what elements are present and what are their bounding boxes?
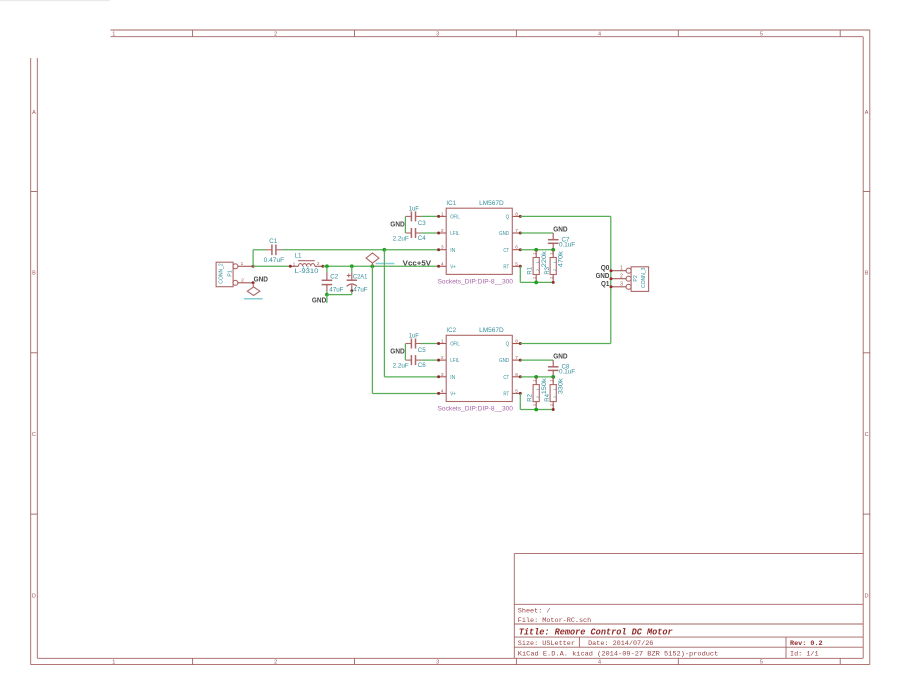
node at P2 pin 2 <box>610 277 613 280</box>
svg-text:47uF: 47uF <box>353 287 367 294</box>
capacitor C3 <box>406 205 427 227</box>
wire joining C3 and C4 left plates <box>404 216 406 233</box>
svg-text:Q: Q <box>506 342 510 348</box>
svg-text:CT: CT <box>503 248 509 254</box>
pin 7 of IC1 <box>512 232 519 234</box>
node at P1 pin 1 <box>252 265 255 268</box>
junction at left resistor bottom <box>534 281 538 285</box>
svg-text:8: 8 <box>515 339 518 345</box>
ground power symbol at P1 pin 2 <box>244 283 263 299</box>
svg-text:7: 7 <box>515 228 518 234</box>
svg-text:5: 5 <box>515 388 518 394</box>
svg-text:C3: C3 <box>418 220 426 227</box>
svg-text:C2: C2 <box>330 274 338 281</box>
svg-text:IC2: IC2 <box>446 327 456 334</box>
svg-text:1: 1 <box>112 32 115 38</box>
junction at C2 bottom <box>325 293 329 297</box>
svg-text:Sockets_DIP:DIP-8__300: Sockets_DIP:DIP-8__300 <box>438 407 514 413</box>
svg-text:R3: R3 <box>545 266 551 274</box>
svg-text:CONN_3: CONN_3 <box>641 267 647 288</box>
power flag PWR_FLAG on Vcc net <box>366 253 394 266</box>
wire C5 to IC pin 1 <box>421 343 438 345</box>
svg-text:Id: 1/1: Id: 1/1 <box>790 650 819 658</box>
node at L1 pin 2 <box>321 265 324 268</box>
svg-text:R4: R4 <box>545 393 551 401</box>
wire IC RT pin down to resistor bottoms <box>519 393 521 409</box>
svg-text:1: 1 <box>536 388 540 390</box>
pin node of IC2 <box>437 359 440 362</box>
svg-text:Date: 2014/07/26: Date: 2014/07/26 <box>588 640 653 648</box>
svg-text:4: 4 <box>598 659 601 665</box>
wire from P1 pin 1 to L1 <box>253 265 290 267</box>
pin 7 of IC2 <box>512 359 519 361</box>
svg-text:V+: V+ <box>450 392 456 398</box>
svg-text:C: C <box>32 432 36 438</box>
node at P2 pin 1 <box>610 269 613 272</box>
pin node of IC2 <box>437 342 440 345</box>
svg-text:R2: R2 <box>528 393 534 401</box>
svg-text:3: 3 <box>441 372 444 378</box>
svg-text:3: 3 <box>436 32 439 38</box>
node at right resistor bottom <box>552 408 555 411</box>
svg-text:L1: L1 <box>295 253 302 260</box>
pin 2 of IC1 <box>439 232 446 234</box>
svg-text:C: C <box>865 432 869 438</box>
wire IC1 Q to corner <box>520 215 611 217</box>
connector P1 CONN_2 <box>216 261 253 287</box>
svg-text:4: 4 <box>441 388 444 394</box>
pin 2 of P2 <box>626 276 631 281</box>
svg-text:2: 2 <box>553 269 557 271</box>
svg-text:GND: GND <box>312 298 326 305</box>
svg-text:GND: GND <box>254 277 268 284</box>
svg-text:C4: C4 <box>418 235 426 242</box>
wire from C2 bottom to C2A1 bottom <box>327 294 352 296</box>
resistor R1 220k <box>528 250 548 283</box>
svg-text:GND: GND <box>390 349 404 356</box>
wire IC RT pin down to resistor bottoms <box>519 266 521 282</box>
junction node on IN wire <box>383 248 387 252</box>
pin 6 of IC2 <box>512 376 519 378</box>
svg-text:2: 2 <box>553 396 557 398</box>
pin 4 of IC1 <box>439 265 446 267</box>
pin node of IC2 <box>437 392 440 395</box>
capacitor C5 <box>406 332 427 354</box>
pin node of IC1 <box>437 215 440 218</box>
GND stub wire below C2 <box>326 295 328 303</box>
svg-text:2: 2 <box>531 277 536 279</box>
svg-text:Sockets_DIP:DIP-8__300: Sockets_DIP:DIP-8__300 <box>438 279 514 285</box>
svg-text:1: 1 <box>553 388 557 390</box>
svg-text:2: 2 <box>274 32 277 38</box>
svg-text:2: 2 <box>441 228 444 234</box>
pin node of IC1 <box>437 265 440 268</box>
pin node of IC1 <box>437 248 440 251</box>
junction at left resistor bottom <box>534 408 538 412</box>
pin 5 of IC2 <box>512 392 519 394</box>
resistor R4 330k <box>545 377 565 410</box>
pin 3 of P2 <box>626 284 631 289</box>
svg-text:GND: GND <box>499 358 509 364</box>
svg-text:R1: R1 <box>528 266 534 274</box>
svg-text:2: 2 <box>548 404 553 406</box>
svg-text:GND: GND <box>553 354 567 361</box>
wire IC GND pin to C7 <box>520 232 553 234</box>
node at P1 pin 2 <box>252 281 255 284</box>
svg-text:5: 5 <box>515 261 518 267</box>
svg-text:C2A1: C2A1 <box>353 274 368 281</box>
junction CT / C7 <box>551 248 555 252</box>
svg-text:1: 1 <box>531 253 536 255</box>
pin 2 of P1 <box>233 280 238 285</box>
svg-text:2.2uF: 2.2uF <box>393 363 409 370</box>
svg-text:2: 2 <box>274 659 277 665</box>
svg-text:2: 2 <box>620 273 623 279</box>
svg-text:0.1uF: 0.1uF <box>559 242 575 249</box>
svg-text:LM567D: LM567D <box>479 200 504 207</box>
wire from C2 bottom to GND stub <box>326 291 328 295</box>
junction CT / left resistor <box>534 248 538 252</box>
svg-text:5: 5 <box>760 32 763 38</box>
svg-text:Sheet: /: Sheet: / <box>518 607 551 615</box>
wire IN node down to IC2 IN <box>383 250 385 377</box>
svg-text:OFIL: OFIL <box>450 215 460 221</box>
svg-text:V+: V+ <box>450 264 456 270</box>
svg-text:2: 2 <box>317 261 320 267</box>
wire C6 to IC pin 2 <box>421 359 438 361</box>
wire C4 to IC pin 2 <box>421 232 438 234</box>
svg-text:1: 1 <box>553 261 557 263</box>
svg-text:2: 2 <box>531 404 536 406</box>
pin 1 of P2 <box>626 268 631 273</box>
junction at Vcc flag <box>371 264 375 268</box>
svg-text:3: 3 <box>620 281 623 287</box>
svg-text:Q: Q <box>506 215 510 221</box>
connector P2 CONN_3 <box>611 265 649 291</box>
pin 8 of IC1 <box>512 215 519 217</box>
op-amp IC1 LM567D <box>439 200 519 275</box>
wire from P1 pin 1 up to C1 <box>252 250 254 266</box>
V+ supply wire from L1 to IC1 V+ <box>323 265 439 267</box>
junction CT / left resistor <box>534 375 538 379</box>
svg-text:4: 4 <box>598 32 601 38</box>
svg-text:2.2uF: 2.2uF <box>393 236 409 243</box>
svg-text:150k: 150k <box>542 377 548 394</box>
pin node of IC2 <box>437 375 440 378</box>
svg-text:C5: C5 <box>418 347 426 354</box>
svg-text:LM567D: LM567D <box>479 327 504 334</box>
capacitor C8 0.1uF <box>548 360 575 377</box>
svg-text:GND: GND <box>596 273 610 280</box>
svg-text:8: 8 <box>515 211 518 217</box>
capacitor C4 <box>393 228 427 243</box>
pin 1 of P1 <box>233 264 238 269</box>
pin 1 of IC2 <box>439 343 446 345</box>
svg-text:GND: GND <box>390 221 404 228</box>
capacitor C6 <box>393 355 427 370</box>
svg-text:2: 2 <box>548 277 553 279</box>
svg-text:330k: 330k <box>558 377 564 394</box>
node at right resistor bottom <box>552 281 555 284</box>
svg-text:IC1: IC1 <box>446 200 456 207</box>
svg-text:1: 1 <box>536 261 540 263</box>
svg-text:2: 2 <box>441 355 444 361</box>
pin 3 of IC2 <box>439 376 446 378</box>
svg-text:220k: 220k <box>542 250 548 267</box>
svg-text:Q0: Q0 <box>601 265 610 272</box>
wire corner down to IC2 Q <box>610 216 612 343</box>
capacitor C7 0.1uF <box>548 233 575 250</box>
node at C2A1 bottom <box>350 289 353 292</box>
pin 2 of IC2 <box>439 359 446 361</box>
junction at C2A1 top <box>350 264 354 268</box>
svg-text:0.1uF: 0.1uF <box>559 369 575 376</box>
junction at C2 top <box>325 264 329 268</box>
svg-text:1uF: 1uF <box>409 205 420 212</box>
svg-text:CONN_2: CONN_2 <box>218 263 224 284</box>
svg-text:GND: GND <box>499 231 509 237</box>
svg-text:Title: Remore Control DC Motor: Title: Remore Control DC Motor <box>519 627 673 638</box>
svg-text:2: 2 <box>536 396 540 398</box>
svg-text:1uF: 1uF <box>409 332 420 339</box>
svg-text:1: 1 <box>441 211 444 217</box>
svg-text:C6: C6 <box>418 362 426 369</box>
svg-text:Vcc+5V: Vcc+5V <box>403 260 432 267</box>
svg-text:3: 3 <box>436 659 439 665</box>
svg-text:1: 1 <box>293 261 296 267</box>
resistor R2 150k <box>528 377 548 410</box>
svg-text:470k: 470k <box>558 250 564 267</box>
pin 3 of IC1 <box>439 249 446 251</box>
svg-text:1: 1 <box>531 380 536 382</box>
wire Vcc down to IC2 V+ <box>371 266 373 393</box>
svg-text:0.47uF: 0.47uF <box>264 257 285 264</box>
svg-text:2: 2 <box>241 278 244 284</box>
svg-text:D: D <box>865 594 869 600</box>
svg-text:4: 4 <box>441 261 444 267</box>
svg-text:LFIL: LFIL <box>450 358 459 364</box>
svg-text:3: 3 <box>441 245 444 251</box>
junction CT / C8 <box>551 375 555 379</box>
svg-text:2: 2 <box>536 269 540 271</box>
svg-text:IN: IN <box>450 248 455 254</box>
resistor R3 470k <box>545 250 565 283</box>
wire to IC2 Q pin <box>520 343 611 345</box>
svg-text:5: 5 <box>760 659 763 665</box>
svg-text:OFIL: OFIL <box>450 342 460 348</box>
pin 8 of IC2 <box>512 343 519 345</box>
inductor L1 <box>290 253 323 276</box>
svg-text:A: A <box>32 110 36 116</box>
capacitor C1 <box>264 238 285 264</box>
svg-text:6: 6 <box>515 245 518 251</box>
svg-text:IN: IN <box>450 375 455 381</box>
wire IN node to IC1 IN <box>384 249 438 251</box>
pin 1 of IC1 <box>439 215 446 217</box>
pin 6 of IC1 <box>512 249 519 251</box>
svg-text:P1: P1 <box>227 270 233 276</box>
node at P2 pin 3 <box>610 285 613 288</box>
svg-text:File: Motor-RC.sch: File: Motor-RC.sch <box>518 617 591 625</box>
svg-text:GND: GND <box>553 227 567 234</box>
svg-text:LFIL: LFIL <box>450 231 459 237</box>
wire from C1 to IN node <box>282 249 385 251</box>
svg-text:1: 1 <box>548 253 553 255</box>
polarized capacitor C2A1 <box>347 266 368 293</box>
node at L1 pin 1 <box>289 265 292 268</box>
svg-text:6: 6 <box>515 372 518 378</box>
svg-text:P2: P2 <box>633 275 639 281</box>
svg-text:B: B <box>865 271 869 277</box>
svg-text:CT: CT <box>503 375 509 381</box>
svg-text:Rev: 0.2: Rev: 0.2 <box>790 640 823 648</box>
svg-text:Size: USLetter: Size: USLetter <box>518 640 575 648</box>
svg-text:C1: C1 <box>269 238 277 245</box>
svg-text:RT: RT <box>503 392 510 398</box>
wire IC CT pin to resistors <box>520 249 553 251</box>
pin 4 of IC2 <box>439 392 446 394</box>
wire C3 to IC pin 1 <box>421 215 438 217</box>
svg-text:KiCad E.D.A. kicad (2014-09-2: KiCad E.D.A. kicad (2014-09-27 BZR 5152)… <box>518 650 719 658</box>
wire IC CT pin to resistors <box>520 376 553 378</box>
wire joining C5 and C6 left plates <box>404 344 406 361</box>
svg-text:7: 7 <box>515 355 518 361</box>
svg-text:1: 1 <box>241 261 244 267</box>
svg-text:47uF: 47uF <box>329 287 343 294</box>
svg-text:1: 1 <box>548 380 553 382</box>
svg-text:Q1: Q1 <box>601 281 609 288</box>
svg-text:B: B <box>32 271 36 277</box>
pin 5 of IC1 <box>512 265 519 267</box>
op-amp IC2 LM567D <box>439 327 519 402</box>
wire IC GND pin to C8 <box>520 359 553 361</box>
svg-text:RT: RT <box>503 264 510 270</box>
svg-text:A: A <box>865 110 869 116</box>
svg-text:1: 1 <box>441 339 444 345</box>
svg-text:D: D <box>32 594 36 600</box>
pin node of IC1 <box>437 232 440 235</box>
svg-text:1: 1 <box>620 265 623 271</box>
svg-text:1: 1 <box>112 659 115 665</box>
capacitor C2 <box>322 266 344 293</box>
